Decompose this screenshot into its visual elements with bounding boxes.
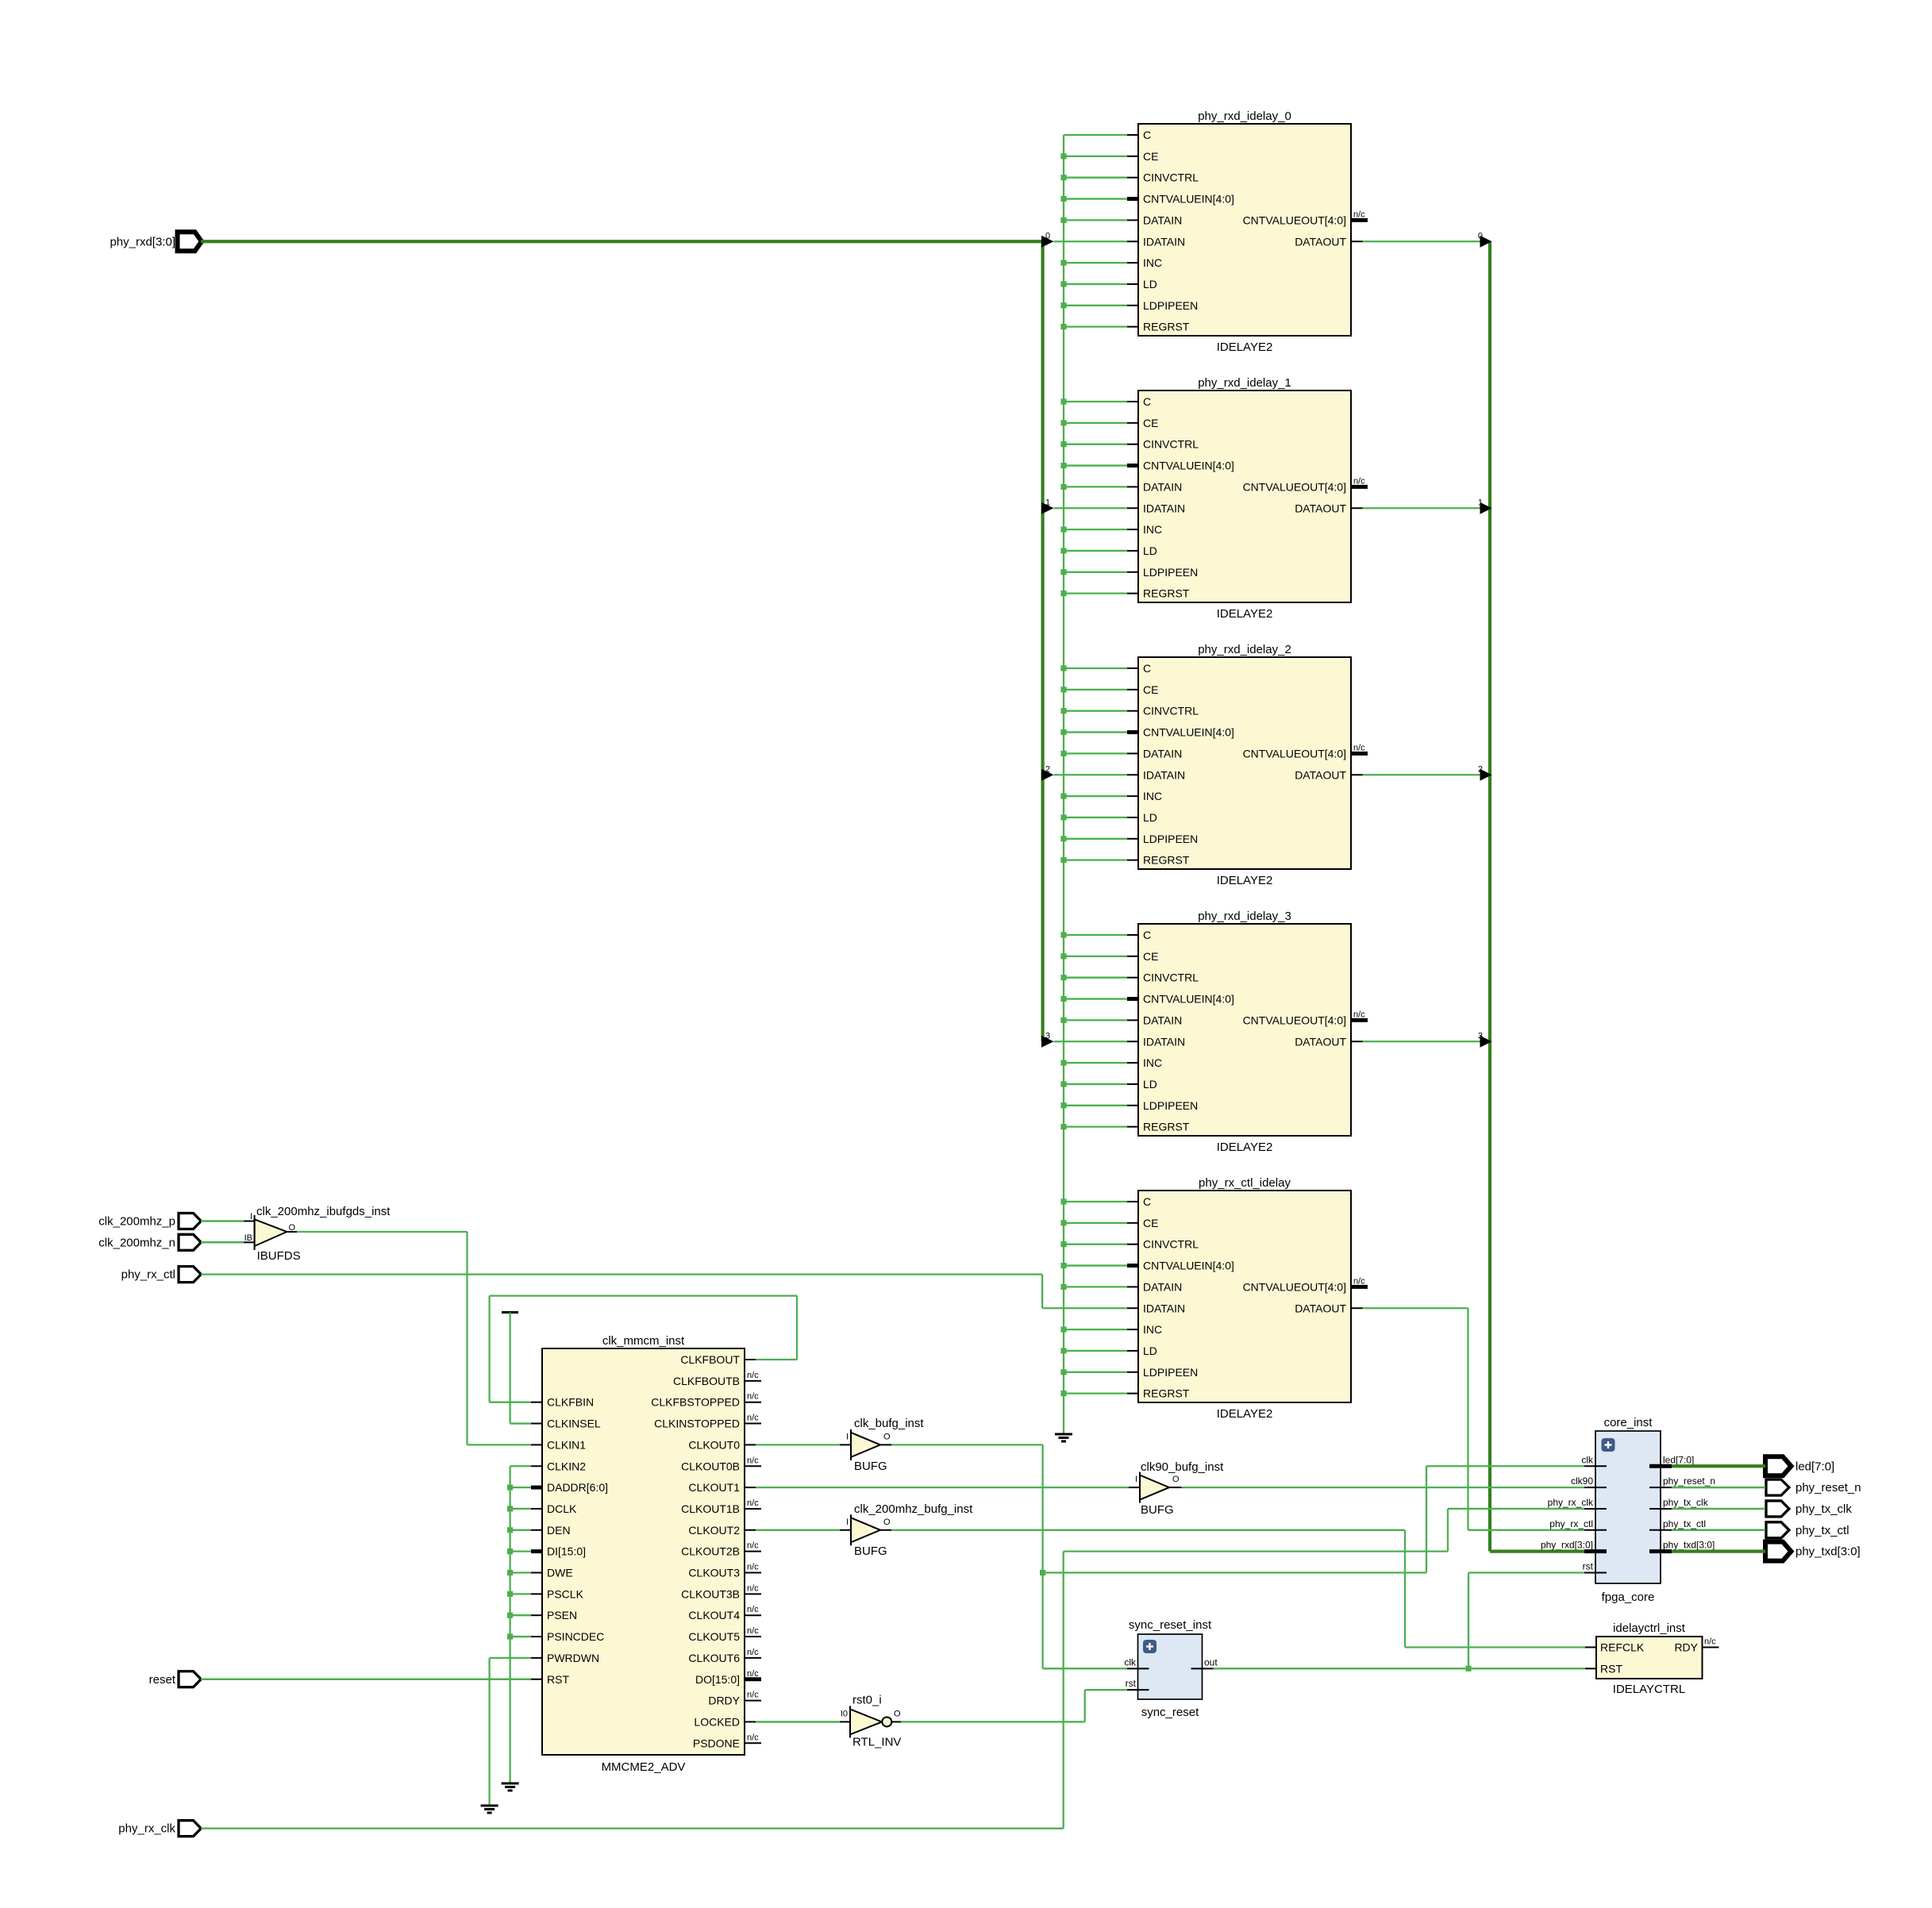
svg-text:DADDR[6:0]: DADDR[6:0] xyxy=(547,1481,608,1494)
wire ctl delay to core xyxy=(1468,1529,1585,1531)
wire control tap phy_rxd_idelay_0 LD xyxy=(1060,281,1127,287)
svg-text:IDATAIN: IDATAIN xyxy=(1143,1035,1185,1048)
svg-text:LD: LD xyxy=(1143,1078,1157,1091)
svg-text:n/c: n/c xyxy=(747,1605,759,1614)
svg-text:CE: CE xyxy=(1143,950,1158,963)
wire phy_rxd_delay[0] from DATAOUT xyxy=(1363,231,1492,248)
svg-text:LDPIPEEN: LDPIPEEN xyxy=(1143,299,1198,312)
svg-text:0: 0 xyxy=(1478,231,1483,240)
svg-text:CLKINSTOPPED: CLKINSTOPPED xyxy=(654,1418,740,1430)
svg-text:phy_tx_clk: phy_tx_clk xyxy=(1663,1497,1709,1508)
wire bus phy_rxd_delay trunk vertical xyxy=(1488,241,1491,1551)
wire clk200 bufg out xyxy=(891,1529,1405,1531)
svg-text:PWRDWN: PWRDWN xyxy=(547,1652,599,1664)
svg-text:LD: LD xyxy=(1143,1344,1157,1357)
svg-text:PSEN: PSEN xyxy=(547,1609,577,1621)
svg-text:3: 3 xyxy=(1045,1031,1050,1041)
ground control net xyxy=(1055,1434,1072,1441)
wire clk CLKOUT0 to bufg xyxy=(756,1444,840,1445)
svg-text:CLKIN2: CLKIN2 xyxy=(547,1460,586,1472)
svg-text:led[7:0]: led[7:0] xyxy=(1663,1454,1694,1465)
svg-text:IDELAYE2: IDELAYE2 xyxy=(1217,1141,1273,1154)
svg-text:idelayctrl_inst: idelayctrl_inst xyxy=(1613,1621,1686,1635)
svg-text:n/c: n/c xyxy=(747,1456,759,1465)
wire rst0 inv out xyxy=(901,1721,1085,1722)
svg-text:IDELAYCTRL: IDELAYCTRL xyxy=(1613,1683,1685,1696)
wire clk branch to core clk xyxy=(1426,1465,1584,1467)
wire gnd to CLKIN2 xyxy=(510,1465,531,1467)
svg-text:phy_txd[3:0]: phy_txd[3:0] xyxy=(1795,1545,1861,1559)
svg-text:CLKOUT2B: CLKOUT2B xyxy=(681,1545,740,1558)
wire control tap phy_rxd_idelay_1 REGRST xyxy=(1060,590,1127,596)
wire bus phy_rxd[3:0] trunk vertical xyxy=(1041,241,1044,1041)
svg-text:phy_rx_clk: phy_rx_clk xyxy=(118,1822,175,1836)
IDELAYE2 phy_rx_ctl_idelay xyxy=(1127,1176,1368,1421)
svg-text:O: O xyxy=(1172,1475,1180,1484)
svg-text:phy_rx_clk: phy_rx_clk xyxy=(1548,1497,1594,1508)
wire gnd tap row 10 xyxy=(507,1570,531,1575)
svg-text:I: I xyxy=(846,1432,849,1441)
IDELAYE2 phy_rxd_idelay_0 xyxy=(1127,110,1368,354)
svg-text:C: C xyxy=(1143,662,1151,675)
svg-text:REGRST: REGRST xyxy=(1143,587,1190,600)
wire clkfb from CLKFBOUT xyxy=(756,1359,797,1360)
svg-text:n/c: n/c xyxy=(1704,1637,1716,1646)
wire reset to RST xyxy=(201,1679,531,1681)
wire ibufds O to CLKIN1 xyxy=(468,1444,532,1445)
wire control tap phy_rx_ctl_idelay CE xyxy=(1060,1220,1127,1225)
wire control tap phy_rxd_idelay_2 LD xyxy=(1060,814,1127,820)
IDELAYE2 phy_rxd_idelay_2 xyxy=(1127,643,1368,887)
wire control tap phy_rxd_idelay_1 C xyxy=(1060,398,1127,404)
svg-text:IDELAYE2: IDELAYE2 xyxy=(1217,1407,1273,1421)
svg-text:phy_rxd_idelay_1: phy_rxd_idelay_1 xyxy=(1198,376,1291,390)
svg-text:RDY: RDY xyxy=(1674,1641,1698,1653)
wire control tap phy_rxd_idelay_3 INC xyxy=(1060,1060,1127,1066)
svg-text:phy_rxd_idelay_2: phy_rxd_idelay_2 xyxy=(1198,643,1291,656)
svg-text:CLKOUT4: CLKOUT4 xyxy=(688,1609,740,1621)
wire control tap phy_rxd_idelay_3 LD xyxy=(1060,1081,1127,1087)
svg-text:I: I xyxy=(250,1212,252,1221)
wire control tap phy_rx_ctl_idelay DATAIN xyxy=(1060,1284,1127,1290)
svg-text:DI[15:0]: DI[15:0] xyxy=(547,1545,586,1558)
wire control tap phy_rxd_idelay_0 DATAIN xyxy=(1060,217,1127,223)
block sync_reset sync_reset_inst xyxy=(1124,1618,1218,1719)
wire control tap phy_rxd_idelay_2 CNTVALUEIN[4:0] xyxy=(1060,729,1127,735)
buffer BUFG clk_bufg_inst xyxy=(846,1417,924,1473)
wire phy_rxd[0] tap to IDATAIN xyxy=(1041,231,1127,248)
svg-text:phy_tx_ctl: phy_tx_ctl xyxy=(1795,1524,1849,1537)
wire bus phy_rxd[3:0] trunk horizontal xyxy=(201,240,1043,243)
wire rst0 up xyxy=(1084,1690,1086,1721)
svg-text:BUFG: BUFG xyxy=(854,1460,887,1473)
wire control tap phy_rx_ctl_idelay LD xyxy=(1060,1348,1127,1353)
wire clk200 to REFCLK xyxy=(1405,1646,1585,1648)
svg-text:phy_rx_ctl_idelay: phy_rx_ctl_idelay xyxy=(1199,1176,1291,1190)
junction clk net xyxy=(1040,1570,1045,1575)
svg-text:CE: CE xyxy=(1143,417,1158,429)
wire locked to inverter xyxy=(756,1721,840,1723)
svg-text:C: C xyxy=(1143,929,1151,941)
svg-text:DCLK: DCLK xyxy=(547,1502,577,1515)
wire phy_rx_clk up xyxy=(1063,1552,1064,1829)
svg-text:DRDY: DRDY xyxy=(708,1695,740,1707)
svg-text:DATAIN: DATAIN xyxy=(1143,213,1182,226)
junction rst net xyxy=(1465,1666,1471,1671)
svg-text:IDATAIN: IDATAIN xyxy=(1143,502,1185,514)
IDELAYE2 phy_rxd_idelay_3 xyxy=(1127,910,1368,1154)
wire control tap phy_rx_ctl_idelay INC xyxy=(1060,1327,1127,1333)
wire pwrdwn gnd vertical xyxy=(488,1658,490,1805)
svg-text:reset: reset xyxy=(149,1673,176,1687)
svg-text:DATAOUT: DATAOUT xyxy=(1295,235,1346,248)
wire control tap phy_rxd_idelay_2 CINVCTRL xyxy=(1060,708,1127,714)
svg-text:clk_200mhz_bufg_inst: clk_200mhz_bufg_inst xyxy=(854,1502,973,1516)
svg-text:CE: CE xyxy=(1143,683,1158,696)
svg-text:CLKOUT1B: CLKOUT1B xyxy=(681,1502,740,1515)
wire control tap phy_rxd_idelay_2 CE xyxy=(1060,687,1127,692)
wire control tap phy_rxd_idelay_3 DATAIN xyxy=(1060,1017,1127,1023)
svg-text:phy_rxd_idelay_0: phy_rxd_idelay_0 xyxy=(1198,110,1291,123)
svg-text:IDATAIN: IDATAIN xyxy=(1143,235,1185,248)
svg-text:REGRST: REGRST xyxy=(1143,1387,1190,1400)
svg-text:LDPIPEEN: LDPIPEEN xyxy=(1143,833,1198,845)
svg-text:CLKOUT5: CLKOUT5 xyxy=(688,1630,740,1643)
svg-text:n/c: n/c xyxy=(747,1583,759,1593)
input port reset xyxy=(149,1671,202,1687)
wire control tap phy_rxd_idelay_1 DATAIN xyxy=(1060,484,1127,490)
wire phy_rx_ctl from port xyxy=(201,1273,1042,1275)
svg-text:RST: RST xyxy=(1600,1662,1622,1675)
svg-text:CINVCTRL: CINVCTRL xyxy=(1143,971,1199,984)
svg-text:core_inst: core_inst xyxy=(1604,1416,1653,1429)
svg-text:CNTVALUEIN[4:0]: CNTVALUEIN[4:0] xyxy=(1143,1260,1234,1272)
wire phy_rx_clk up2 xyxy=(1447,1509,1449,1552)
svg-text:phy_rx_ctl: phy_rx_ctl xyxy=(121,1268,175,1282)
input port clk_200mhz_n xyxy=(98,1234,201,1250)
svg-text:2: 2 xyxy=(1045,764,1050,774)
input port phy_rx_ctl xyxy=(121,1267,202,1283)
output port phy_txd[3:0] xyxy=(1765,1542,1861,1561)
svg-text:phy_reset_n: phy_reset_n xyxy=(1795,1481,1861,1494)
svg-text:LOCKED: LOCKED xyxy=(694,1715,740,1728)
svg-text:phy_tx_ctl: phy_tx_ctl xyxy=(1663,1518,1706,1529)
wire clk to sync_reset clk xyxy=(1043,1668,1127,1669)
wire phy_reset_n to port xyxy=(1672,1487,1765,1489)
wire phy_rxd_delay[2] from DATAOUT xyxy=(1363,764,1492,781)
buffer BUFG clk90_bufg_inst xyxy=(1135,1460,1224,1517)
svg-text:n/c: n/c xyxy=(1353,1276,1365,1286)
wire control tap phy_rxd_idelay_2 INC xyxy=(1060,794,1127,799)
wire gnd tap row 7 xyxy=(507,1506,531,1511)
wire control tap phy_rxd_idelay_1 INC xyxy=(1060,527,1127,533)
svg-text:n/c: n/c xyxy=(747,1648,759,1657)
wire phy_rx_ctl down xyxy=(1041,1275,1043,1309)
svg-text:3: 3 xyxy=(1478,1031,1483,1041)
svg-text:CLKOUT3: CLKOUT3 xyxy=(688,1567,740,1579)
svg-text:LD: LD xyxy=(1143,811,1157,824)
svg-text:C: C xyxy=(1143,395,1151,408)
input port phy_rx_clk xyxy=(118,1821,201,1837)
wire rst to core rst xyxy=(1468,1571,1584,1573)
wire gnd tap row 12 xyxy=(507,1613,531,1618)
svg-text:CNTVALUEOUT[4:0]: CNTVALUEOUT[4:0] xyxy=(1243,213,1346,226)
svg-text:IDATAIN: IDATAIN xyxy=(1143,768,1185,781)
wire ibufds O horizontal xyxy=(297,1231,468,1233)
svg-text:CLKOUT6: CLKOUT6 xyxy=(688,1652,740,1664)
wire phy_rxd_delay[1] from DATAOUT xyxy=(1363,498,1492,514)
svg-text:n/c: n/c xyxy=(747,1669,759,1679)
svg-text:DATAIN: DATAIN xyxy=(1143,1280,1182,1293)
svg-text:DEN: DEN xyxy=(547,1524,571,1537)
svg-text:clk90_bufg_inst: clk90_bufg_inst xyxy=(1141,1460,1224,1474)
svg-text:n/c: n/c xyxy=(1353,1010,1365,1019)
svg-text:CNTVALUEIN[4:0]: CNTVALUEIN[4:0] xyxy=(1143,193,1234,206)
wire control tap phy_rxd_idelay_1 CE xyxy=(1060,420,1127,425)
svg-text:DATAOUT: DATAOUT xyxy=(1295,768,1346,781)
svg-text:DATAOUT: DATAOUT xyxy=(1295,502,1346,514)
wire control tap phy_rx_ctl_idelay CNTVALUEIN[4:0] xyxy=(1060,1263,1127,1268)
wire rst0 to sync rst xyxy=(1085,1689,1127,1691)
svg-text:CE: CE xyxy=(1143,1217,1158,1229)
wire clkfb up xyxy=(796,1296,798,1360)
svg-text:1: 1 xyxy=(1045,498,1050,507)
svg-text:CLKIN1: CLKIN1 xyxy=(547,1438,586,1451)
wire idelay control net vertical xyxy=(1063,135,1064,1433)
svg-text:CLKOUT2: CLKOUT2 xyxy=(688,1524,740,1537)
wire rst branch up xyxy=(1468,1573,1469,1669)
svg-text:CNTVALUEOUT[4:0]: CNTVALUEOUT[4:0] xyxy=(1243,480,1346,493)
svg-text:sync_reset: sync_reset xyxy=(1141,1706,1199,1719)
input port phy_rxd[3:0] xyxy=(110,232,202,251)
svg-text:CLKFBOUT: CLKFBOUT xyxy=(680,1353,740,1366)
svg-text:IB: IB xyxy=(244,1233,252,1243)
svg-text:CLKFBSTOPPED: CLKFBSTOPPED xyxy=(651,1396,740,1409)
svg-text:CLKINSEL: CLKINSEL xyxy=(547,1418,601,1430)
svg-text:fpga_core: fpga_core xyxy=(1602,1591,1655,1604)
svg-text:CINVCTRL: CINVCTRL xyxy=(1143,705,1199,717)
svg-text:sync_reset_inst: sync_reset_inst xyxy=(1129,1618,1212,1632)
svg-text:I0: I0 xyxy=(841,1709,848,1718)
svg-text:clk_200mhz_n: clk_200mhz_n xyxy=(98,1236,175,1249)
MMCME2_ADV clk_mmcm_inst xyxy=(531,1334,761,1774)
svg-text:n/c: n/c xyxy=(747,1392,759,1402)
wire phy_rx_clk to core xyxy=(1448,1508,1584,1510)
svg-text:2: 2 xyxy=(1478,764,1483,774)
svg-text:IDELAYE2: IDELAYE2 xyxy=(1217,874,1273,887)
svg-text:0: 0 xyxy=(1045,231,1050,240)
wire control tap phy_rxd_idelay_1 LD xyxy=(1060,548,1127,553)
wire ctl delay down xyxy=(1467,1308,1468,1530)
wire control tap phy_rx_ctl_idelay LDPIPEEN xyxy=(1060,1369,1127,1375)
svg-text:phy_rxd[3:0]: phy_rxd[3:0] xyxy=(1541,1540,1593,1551)
svg-text:clk90: clk90 xyxy=(1571,1475,1593,1487)
wire clkfb to CLKFBIN xyxy=(490,1402,531,1403)
svg-text:n/c: n/c xyxy=(1353,476,1365,486)
wire control tap phy_rx_ctl_idelay REGRST xyxy=(1060,1391,1127,1396)
wire phy_rx_clk horizontal xyxy=(1064,1551,1448,1552)
svg-text:clk_200mhz_p: clk_200mhz_p xyxy=(98,1215,175,1229)
wire control tap phy_rxd_idelay_3 C xyxy=(1060,932,1127,937)
svg-text:I: I xyxy=(1135,1475,1137,1484)
wire control tap phy_rxd_idelay_1 LDPIPEEN xyxy=(1060,569,1127,575)
svg-text:DWE: DWE xyxy=(547,1567,573,1579)
svg-text:DO[15:0]: DO[15:0] xyxy=(695,1673,740,1686)
block fpga_core core_inst xyxy=(1541,1416,1715,1604)
block IDELAYCTRL idelayctrl_inst xyxy=(1585,1621,1719,1696)
wire phy_rxd[2] tap to IDATAIN xyxy=(1041,764,1127,781)
wire control tap phy_rxd_idelay_3 CINVCTRL xyxy=(1060,975,1127,980)
wire control tap phy_rxd_idelay_3 REGRST xyxy=(1060,1124,1127,1129)
svg-text:C: C xyxy=(1143,129,1151,141)
wire phy_rx_ctl to IDATAIN xyxy=(1042,1307,1127,1309)
svg-text:INC: INC xyxy=(1143,523,1162,536)
svg-text:REGRST: REGRST xyxy=(1143,321,1190,333)
svg-text:CINVCTRL: CINVCTRL xyxy=(1143,171,1199,184)
buffer IBUFDS clk_200mhz_ibufgds_inst xyxy=(244,1205,391,1263)
svg-text:INC: INC xyxy=(1143,1323,1162,1336)
wire ctl idelay DATAOUT xyxy=(1363,1307,1468,1309)
wire control tap phy_rxd_idelay_0 INC xyxy=(1060,260,1127,266)
svg-text:IDELAYE2: IDELAYE2 xyxy=(1217,607,1273,621)
wire gnd tap row 6 xyxy=(507,1485,531,1491)
svg-text:CLKOUT0: CLKOUT0 xyxy=(688,1438,740,1451)
svg-text:LD: LD xyxy=(1143,544,1157,557)
svg-text:rst0_i: rst0_i xyxy=(852,1693,882,1706)
svg-text:INC: INC xyxy=(1143,1056,1162,1069)
svg-text:BUFG: BUFG xyxy=(1141,1503,1174,1517)
svg-text:rst: rst xyxy=(1126,1678,1137,1689)
svg-text:LDPIPEEN: LDPIPEEN xyxy=(1143,1366,1198,1379)
wire control tap phy_rx_ctl_idelay CINVCTRL xyxy=(1060,1241,1127,1247)
wire control tap phy_rxd_idelay_2 DATAIN xyxy=(1060,751,1127,756)
buffer BUFG clk_200mhz_bufg_inst xyxy=(846,1502,973,1558)
wire control tap phy_rxd_idelay_3 CNTVALUEIN[4:0] xyxy=(1060,996,1127,1002)
svg-text:CLKOUT1: CLKOUT1 xyxy=(688,1481,740,1494)
svg-text:CINVCTRL: CINVCTRL xyxy=(1143,438,1199,451)
output port phy_reset_n xyxy=(1766,1479,1861,1495)
wire control tap phy_rxd_idelay_1 CINVCTRL xyxy=(1060,441,1127,447)
svg-text:C: C xyxy=(1143,1195,1151,1208)
wire control tap phy_rxd_idelay_0 LDPIPEEN xyxy=(1060,302,1127,308)
svg-text:CNTVALUEIN[4:0]: CNTVALUEIN[4:0] xyxy=(1143,460,1234,472)
wire ibufds O vertical xyxy=(466,1232,468,1444)
svg-text:phy_txd[3:0]: phy_txd[3:0] xyxy=(1663,1540,1715,1551)
svg-text:CNTVALUEOUT[4:0]: CNTVALUEOUT[4:0] xyxy=(1243,747,1346,760)
wire control tap phy_rxd_idelay_0 CNTVALUEIN[4:0] xyxy=(1060,196,1127,202)
svg-text:REGRST: REGRST xyxy=(1143,854,1190,867)
wire phy_rxd_delay[3] from DATAOUT xyxy=(1363,1031,1492,1048)
svg-text:led[7:0]: led[7:0] xyxy=(1795,1460,1834,1473)
wire control tap phy_rxd_idelay_2 REGRST xyxy=(1060,857,1127,863)
svg-text:PSCLK: PSCLK xyxy=(547,1587,584,1600)
svg-text:DATAIN: DATAIN xyxy=(1143,480,1182,493)
svg-text:n/c: n/c xyxy=(747,1371,759,1380)
wire control tap phy_rxd_idelay_3 CE xyxy=(1060,953,1127,959)
wire clkout1 to bufg90 xyxy=(756,1487,1129,1488)
svg-text:n/c: n/c xyxy=(1353,743,1365,752)
wire clkfb down xyxy=(488,1296,490,1402)
wire clk200 down xyxy=(1404,1530,1406,1648)
svg-text:O: O xyxy=(883,1432,891,1441)
svg-text:INC: INC xyxy=(1143,790,1162,802)
wire clk bufg out xyxy=(891,1444,1043,1445)
wire control tap phy_rx_ctl_idelay C xyxy=(1060,1198,1127,1204)
svg-text:MMCME2_ADV: MMCME2_ADV xyxy=(602,1760,686,1774)
svg-text:n/c: n/c xyxy=(747,1626,759,1636)
wire gnd tap row 9 xyxy=(507,1548,531,1554)
wire control tap phy_rxd_idelay_1 CNTVALUEIN[4:0] xyxy=(1060,463,1127,468)
svg-text:phy_rx_ctl: phy_rx_ctl xyxy=(1549,1518,1593,1529)
svg-text:CNTVALUEOUT[4:0]: CNTVALUEOUT[4:0] xyxy=(1243,1014,1346,1026)
svg-text:phy_rxd[3:0]: phy_rxd[3:0] xyxy=(110,235,175,248)
svg-text:DATAIN: DATAIN xyxy=(1143,1014,1182,1026)
wire clk vertical xyxy=(1041,1444,1043,1668)
power VCC tie CLKINSEL xyxy=(502,1313,531,1424)
wire phy_rxd[1] tap to IDATAIN xyxy=(1041,498,1127,514)
input port clk_200mhz_p xyxy=(98,1214,201,1229)
svg-text:DATAIN: DATAIN xyxy=(1143,747,1182,760)
wire gnd tap row 8 xyxy=(507,1527,531,1533)
svg-text:CNTVALUEIN[4:0]: CNTVALUEIN[4:0] xyxy=(1143,726,1234,739)
wire control tap phy_rxd_idelay_3 LDPIPEEN xyxy=(1060,1102,1127,1108)
svg-text:n/c: n/c xyxy=(747,1733,759,1742)
svg-text:1: 1 xyxy=(1478,498,1483,507)
output port led[7:0] xyxy=(1765,1456,1834,1475)
wire gnd tap row 11 xyxy=(507,1591,531,1597)
wire phy_txd bus to port xyxy=(1672,1550,1765,1553)
output port phy_tx_clk xyxy=(1766,1501,1852,1517)
wire phy_rx_clk from port xyxy=(201,1828,1064,1829)
wire clk90 to core xyxy=(1182,1487,1585,1488)
svg-text:REFCLK: REFCLK xyxy=(1600,1641,1645,1653)
svg-text:out: out xyxy=(1204,1656,1218,1668)
svg-text:RST: RST xyxy=(547,1673,569,1686)
svg-text:CE: CE xyxy=(1143,150,1158,163)
wire phy_tx_ctl to port xyxy=(1672,1529,1765,1532)
svg-text:PSINCDEC: PSINCDEC xyxy=(547,1630,604,1643)
svg-text:phy_reset_n: phy_reset_n xyxy=(1663,1475,1715,1487)
ground gnd chain xyxy=(502,1783,519,1791)
svg-text:clk_200mhz_ibufgds_inst: clk_200mhz_ibufgds_inst xyxy=(256,1205,391,1218)
wire clk branch up xyxy=(1426,1466,1427,1572)
svg-text:phy_tx_clk: phy_tx_clk xyxy=(1795,1502,1852,1516)
wire gnd tap row 13 xyxy=(507,1633,531,1639)
output port phy_tx_ctl xyxy=(1766,1522,1849,1538)
wire clk_200mhz_p xyxy=(201,1220,244,1222)
wire gnd chain vertical xyxy=(509,1466,510,1783)
svg-text:CNTVALUEOUT[4:0]: CNTVALUEOUT[4:0] xyxy=(1243,1280,1346,1293)
svg-text:n/c: n/c xyxy=(747,1414,759,1423)
svg-text:CNTVALUEIN[4:0]: CNTVALUEIN[4:0] xyxy=(1143,993,1234,1006)
svg-text:INC: INC xyxy=(1143,256,1162,269)
wire phy_rxd[3] tap to IDATAIN xyxy=(1041,1031,1127,1048)
IDELAYE2 phy_rxd_idelay_1 xyxy=(1127,376,1368,621)
svg-text:LDPIPEEN: LDPIPEEN xyxy=(1143,1099,1198,1112)
wire pwrdwn to pin xyxy=(490,1657,531,1659)
wire bus phy_rxd_delay to core horizontal xyxy=(1490,1550,1584,1553)
wire clkout2 to bufg200 xyxy=(756,1529,840,1531)
svg-text:n/c: n/c xyxy=(747,1691,759,1700)
svg-text:IDELAYE2: IDELAYE2 xyxy=(1217,340,1273,354)
svg-text:O: O xyxy=(894,1709,901,1718)
wire phy_tx_clk to port xyxy=(1672,1508,1765,1510)
wire led bus to port xyxy=(1672,1464,1765,1468)
svg-text:IDATAIN: IDATAIN xyxy=(1143,1302,1185,1314)
svg-text:clk: clk xyxy=(1581,1454,1594,1465)
wire control tap phy_rxd_idelay_0 CE xyxy=(1060,153,1127,159)
wire rst sync out to idelayctrl RST xyxy=(1214,1668,1586,1669)
